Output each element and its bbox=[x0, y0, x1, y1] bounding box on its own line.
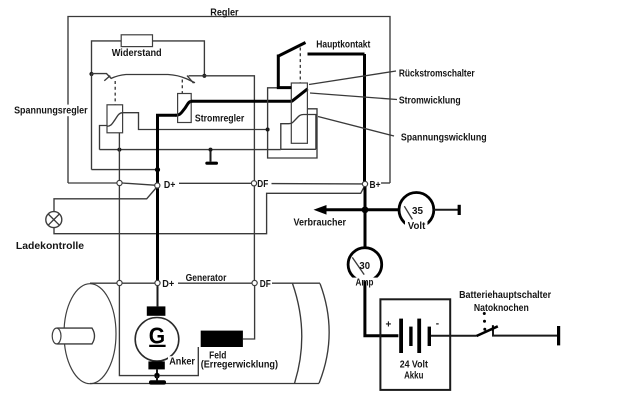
node D+ bbox=[155, 183, 160, 188]
generator housing seam arc bbox=[293, 284, 302, 384]
wire DF riser to generator bbox=[253, 186, 255, 280]
brush bottom bbox=[148, 361, 164, 369]
callout line Rueckstromschalter bbox=[309, 71, 396, 85]
wire contact spring arm bbox=[91, 74, 195, 83]
svg-text:Hauptkontakt: Hauptkontakt bbox=[316, 39, 371, 50]
wire Widerstand left leg down bbox=[91, 74, 93, 170]
battery plate long 2 bbox=[417, 319, 421, 353]
svg-text:24 Volt: 24 Volt bbox=[400, 359, 429, 370]
ground stub generator bbox=[156, 376, 158, 381]
callout line Stromwicklung bbox=[310, 93, 397, 100]
relay armature diagonal bbox=[107, 113, 123, 127]
callout line Spannungswicklung bbox=[318, 117, 394, 137]
svg-text:Rückstromschalter: Rückstromschalter bbox=[399, 69, 475, 80]
switch contact tick bbox=[492, 325, 494, 331]
battery plate short 1 bbox=[409, 327, 412, 346]
svg-text:(Erregerwicklung): (Erregerwicklung) bbox=[201, 360, 278, 371]
wire coil hook to bus bbox=[100, 126, 108, 150]
shunt winding Spannungswicklung shape bbox=[281, 115, 316, 150]
relay coil Stromregler bbox=[178, 94, 192, 123]
wire D+ riser to generator bbox=[156, 188, 159, 280]
battery box bbox=[380, 299, 450, 390]
junction left contact pivot bbox=[89, 72, 93, 76]
generator shaft bbox=[57, 328, 95, 344]
junction B+ distribution node bbox=[362, 206, 369, 213]
generator housing top edge bbox=[90, 282, 117, 284]
wire bus to D+ bbox=[122, 183, 155, 185]
svg-text:35: 35 bbox=[412, 206, 423, 217]
svg-text:Widerstand: Widerstand bbox=[112, 48, 162, 59]
brush top bbox=[147, 306, 166, 315]
wire coil bottom to node bbox=[118, 133, 120, 150]
wire left terminal riser to generator bbox=[118, 186, 120, 281]
node generator D+ bbox=[155, 280, 160, 285]
switch Hauptkontakt arm bbox=[278, 43, 306, 57]
wire bus left segment bbox=[68, 182, 117, 184]
thick wire ammeter to battery bbox=[365, 281, 399, 335]
junction ground stub node bbox=[209, 148, 213, 152]
svg-text:Batteriehauptschalter: Batteriehauptschalter bbox=[459, 290, 551, 301]
ground stub wire bbox=[210, 150, 212, 162]
battery plate short 2 bbox=[428, 327, 431, 346]
wire field to DF bbox=[243, 286, 255, 339]
node terminal circle left bbox=[117, 180, 122, 185]
field winding Feld block bbox=[201, 331, 243, 347]
wire bus D+ to DF bbox=[179, 182, 251, 184]
armature G circle bbox=[135, 318, 179, 362]
thick wire main contact bar bbox=[308, 53, 365, 56]
svg-text:-: - bbox=[436, 319, 439, 330]
junction armature ground node bbox=[154, 373, 160, 379]
dashed link current regulator armature bbox=[181, 80, 183, 94]
wire node down to terminal circle bbox=[118, 150, 120, 181]
svg-text:B+: B+ bbox=[370, 180, 381, 191]
contact point tick left bbox=[104, 76, 110, 81]
ground bar generator bbox=[149, 380, 166, 384]
wire top edge segment bbox=[122, 282, 155, 284]
thick wire B+ drop bbox=[363, 54, 366, 182]
svg-text:Spannungswicklung: Spannungswicklung bbox=[401, 133, 487, 144]
svg-text:Stromregler: Stromregler bbox=[195, 114, 244, 125]
node generator DF bbox=[252, 280, 257, 285]
relay coil Spannungsregler bbox=[107, 105, 123, 133]
svg-text:D+: D+ bbox=[162, 279, 174, 290]
node DF bbox=[251, 181, 256, 186]
wire voltmeter lead bbox=[434, 209, 458, 211]
svg-text:Spannungsregler: Spannungsregler bbox=[14, 105, 88, 116]
thick wire series winding run bbox=[191, 100, 292, 103]
thick wire cutout winding diagonal bbox=[292, 89, 308, 102]
node B+ bbox=[362, 181, 367, 186]
wire leg to D+ riser bbox=[92, 169, 157, 171]
wire right fixed contact post bbox=[189, 75, 205, 77]
relay core Rueckstromschalter bbox=[291, 83, 307, 143]
svg-text:G: G bbox=[149, 323, 165, 349]
junction coil bottom node bbox=[117, 148, 121, 152]
winding enclosure C-box bbox=[268, 88, 317, 158]
generator housing left ellipse bbox=[64, 284, 116, 384]
lamp Ladekontrolle bbox=[46, 212, 62, 228]
wire brush to ground node bbox=[156, 369, 158, 375]
generator housing bottom edge bbox=[90, 383, 319, 385]
switch Batteriehauptschalter arm bbox=[477, 326, 498, 336]
svg-text:Anker: Anker bbox=[169, 357, 195, 368]
ground bar bbox=[205, 162, 218, 165]
svg-text:30: 30 bbox=[359, 261, 370, 272]
svg-text:Regler: Regler bbox=[210, 7, 238, 18]
wire left riser inside generator bbox=[119, 286, 154, 376]
contact point tick right bbox=[187, 76, 194, 84]
thick wire current regulator diagonal bbox=[176, 101, 193, 115]
dotted actuator link bbox=[483, 312, 486, 315]
svg-text:Volt: Volt bbox=[408, 221, 426, 232]
generator housing right cap bbox=[319, 284, 329, 384]
wire winding bottom bbox=[281, 148, 316, 150]
meter ammeter bbox=[348, 248, 382, 282]
junction on D+ riser bbox=[155, 167, 160, 172]
label Anker bbox=[168, 356, 197, 366]
svg-text:Ladekontrolle: Ladekontrolle bbox=[16, 241, 85, 252]
thick wire B+ to ammeter bbox=[364, 187, 367, 248]
junction right contact pivot bbox=[202, 74, 206, 78]
dashed link cutout armature bbox=[299, 48, 301, 83]
wire right pivot to DF riser bbox=[204, 76, 254, 181]
terminal bar voltmeter bbox=[458, 205, 461, 215]
svg-text:Stromwicklung: Stromwicklung bbox=[399, 95, 461, 106]
svg-text:DF: DF bbox=[257, 179, 268, 190]
battery plate long 1 bbox=[399, 319, 403, 353]
wire battery to switch bbox=[431, 335, 477, 337]
svg-text:DF: DF bbox=[260, 279, 271, 290]
thick wire cutout contact post bbox=[278, 55, 291, 88]
terminal bar switch end bbox=[557, 326, 560, 345]
wire bus B+ to box edge bbox=[381, 182, 390, 184]
wire switch right post bbox=[493, 331, 557, 336]
thick wire D+ riser bbox=[158, 115, 177, 183]
wire top edge segment bbox=[178, 282, 252, 284]
resistor Widerstand body bbox=[121, 35, 152, 47]
wire D+ into armature bbox=[157, 286, 159, 307]
meter voltmeter bbox=[399, 193, 434, 228]
svg-text:D+: D+ bbox=[164, 180, 176, 191]
svg-text:Natoknochen: Natoknochen bbox=[474, 303, 529, 314]
dashed link voltage regulator armature bbox=[114, 81, 116, 105]
wire internal bus bbox=[100, 149, 281, 151]
wire resistor left lead bbox=[92, 41, 122, 73]
label Spannungsregler bbox=[13, 105, 90, 117]
junction winding box node bbox=[266, 128, 270, 132]
thick wire consumer feed bbox=[325, 208, 399, 211]
wire lamp to D+ bbox=[54, 188, 156, 212]
wire top edge segment bbox=[272, 282, 320, 284]
node generator terminal left bbox=[117, 280, 122, 285]
wire bus DF to B+ bbox=[272, 183, 363, 185]
arrowhead Verbraucher bbox=[314, 205, 327, 215]
regler enclosure box bbox=[68, 17, 390, 184]
svg-text:+: + bbox=[386, 320, 392, 331]
svg-text:Akku: Akku bbox=[404, 370, 423, 381]
wire armature to field bbox=[160, 347, 199, 376]
svg-text:Verbraucher: Verbraucher bbox=[294, 218, 347, 229]
wire armature contact to winding box bbox=[123, 113, 268, 130]
wire resistor right lead bbox=[153, 41, 205, 75]
wire lamp to B+ bbox=[54, 187, 364, 234]
